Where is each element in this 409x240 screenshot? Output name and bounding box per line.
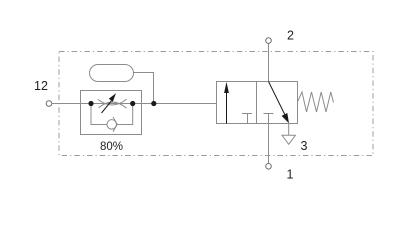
valve right position: exhaust arrow 2 to 3 xyxy=(269,82,290,124)
wire: exhaust stem xyxy=(288,124,290,136)
svg-text:2: 2 xyxy=(287,29,294,43)
wire: pilot line from port 12 to valve xyxy=(52,103,217,105)
port 1 circle xyxy=(266,164,272,170)
valve right position: blocked port 1 T xyxy=(264,114,274,124)
valve left position: blocked port T xyxy=(242,114,252,124)
wire: check valve bypass loop xyxy=(91,104,133,125)
throttle valve (adjustable restrictor) xyxy=(98,99,127,108)
valve U1 body (3/2-way valve, two position boxes) xyxy=(217,82,298,124)
svg-text:80%: 80% xyxy=(100,141,123,153)
port 12 circle xyxy=(46,101,52,107)
throttle adjustment arrow xyxy=(102,93,117,113)
valve left position: flow arrow xyxy=(224,82,229,124)
check valve ball xyxy=(107,120,117,129)
pilot reservoir (pill shape) xyxy=(90,65,134,82)
node: reservoir junction xyxy=(151,101,156,106)
return spring xyxy=(298,92,334,112)
check valve seat xyxy=(113,117,117,132)
svg-text:1: 1 xyxy=(287,168,294,182)
wire: port 2 line xyxy=(268,43,270,81)
port 2 circle xyxy=(266,38,272,44)
enclosure (dash-dot assembly boundary) xyxy=(59,52,373,156)
svg-text:12: 12 xyxy=(34,79,48,93)
wire: port 1 line xyxy=(268,124,270,164)
wire: reservoir to main line xyxy=(134,73,154,104)
flow control unit outer box xyxy=(81,91,142,135)
node: left junction xyxy=(88,101,93,106)
node: right junction xyxy=(130,101,135,106)
exhaust port 3 triangle xyxy=(282,135,295,144)
svg-text:3: 3 xyxy=(301,139,308,153)
